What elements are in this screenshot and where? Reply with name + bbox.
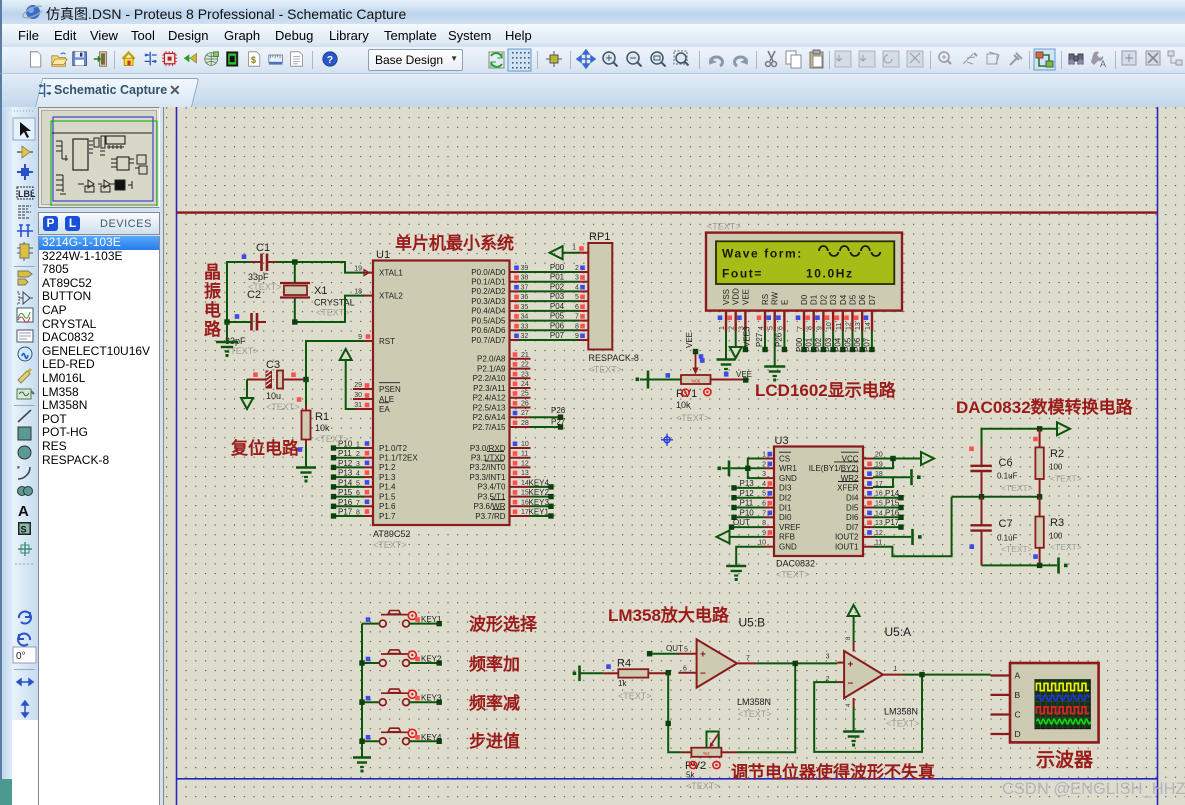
svg-text:LCD1602显示电路: LCD1602显示电路 bbox=[755, 380, 897, 400]
button KEY3 bbox=[362, 689, 442, 705]
svg-text:1: 1 bbox=[356, 442, 360, 449]
svg-text:DI6: DI6 bbox=[846, 513, 859, 522]
power terminal EA bbox=[340, 349, 352, 360]
wire net label P27 bbox=[530, 418, 566, 430]
svg-text:P02: P02 bbox=[814, 337, 823, 352]
svg-text:%2: %2 bbox=[703, 751, 710, 756]
svg-text:GND: GND bbox=[779, 543, 797, 552]
svg-text:D7: D7 bbox=[868, 294, 877, 305]
wire net P14 DI4 bbox=[873, 497, 899, 499]
capacitor C3 10u electrolytic bbox=[247, 359, 306, 412]
wire net P15 DI5 bbox=[873, 507, 899, 509]
svg-text:39: 39 bbox=[521, 265, 529, 272]
svg-text:U5:B: U5:B bbox=[739, 616, 766, 630]
capacitor C7 0.1uF bbox=[970, 497, 1033, 566]
svg-text:P03: P03 bbox=[550, 292, 565, 301]
resistor R3 100 bbox=[1033, 497, 1081, 566]
svg-text:振: 振 bbox=[204, 281, 221, 301]
svg-text:<TEXT>: <TEXT> bbox=[1050, 474, 1082, 484]
svg-text:P1.2: P1.2 bbox=[379, 463, 396, 472]
svg-text:11: 11 bbox=[875, 540, 882, 547]
wire xtal top rail to XTAL1 bbox=[276, 262, 364, 273]
svg-text:8: 8 bbox=[762, 520, 766, 527]
svg-text:+: + bbox=[848, 659, 854, 670]
svg-text:0°: 0° bbox=[16, 651, 26, 662]
junction mid C6 bbox=[979, 494, 984, 499]
ic U3 DAC0832 body bbox=[758, 435, 883, 580]
svg-text:AT89C52: AT89C52 bbox=[373, 529, 410, 539]
svg-text:EA: EA bbox=[379, 405, 390, 414]
svg-text:22: 22 bbox=[521, 362, 529, 369]
svg-text:R1: R1 bbox=[315, 411, 329, 423]
svg-text:P12: P12 bbox=[740, 489, 755, 498]
svg-text:6: 6 bbox=[575, 304, 579, 311]
svg-text:P3.7/RD: P3.7/RD bbox=[475, 512, 505, 521]
svg-text:10u: 10u bbox=[266, 391, 281, 401]
op-amp U5:B LM358N bbox=[678, 616, 771, 720]
svg-text:KEY4: KEY4 bbox=[421, 733, 442, 742]
svg-text:5: 5 bbox=[356, 480, 360, 487]
svg-text:2: 2 bbox=[575, 265, 579, 272]
svg-text:DI0: DI0 bbox=[779, 513, 792, 522]
svg-text:10k: 10k bbox=[676, 400, 691, 410]
wire crystal top stub bbox=[294, 262, 296, 283]
wire mid rail bbox=[952, 496, 1040, 498]
terminal LCD VDD down arrow bbox=[735, 331, 737, 347]
svg-text:D2: D2 bbox=[819, 294, 828, 305]
svg-text:34: 34 bbox=[521, 314, 529, 321]
svg-text:P01: P01 bbox=[805, 337, 814, 352]
svg-text:C7: C7 bbox=[999, 518, 1013, 530]
wire feedback down bbox=[668, 673, 681, 753]
wire net P12 DI2 bbox=[736, 497, 764, 499]
svg-text:P03: P03 bbox=[824, 337, 833, 352]
terminal ground CS-WR1 bbox=[728, 461, 731, 477]
svg-text:RP1: RP1 bbox=[589, 231, 610, 243]
junction crystal bottom bbox=[292, 319, 297, 324]
svg-text:D3: D3 bbox=[829, 294, 838, 305]
svg-text:P05: P05 bbox=[843, 337, 852, 352]
svg-text:KEY4: KEY4 bbox=[529, 478, 550, 487]
svg-text:P0.6/AD6: P0.6/AD6 bbox=[471, 326, 506, 335]
svg-text:P12: P12 bbox=[338, 459, 353, 468]
svg-text:KEY2: KEY2 bbox=[421, 655, 442, 664]
svg-text:KEY3: KEY3 bbox=[421, 694, 442, 703]
svg-text:10: 10 bbox=[758, 540, 766, 547]
svg-text:P16: P16 bbox=[338, 498, 353, 507]
svg-text:5: 5 bbox=[768, 326, 775, 330]
wire CS WR1 GND tie bbox=[748, 459, 764, 479]
svg-text:IOUT2: IOUT2 bbox=[835, 533, 859, 542]
svg-text:LM358放大电路: LM358放大电路 bbox=[608, 605, 730, 625]
svg-text:P1.7: P1.7 bbox=[379, 512, 396, 521]
svg-text:P1.0/T2: P1.0/T2 bbox=[379, 444, 408, 453]
svg-text:C1: C1 bbox=[256, 242, 270, 254]
svg-text:D5: D5 bbox=[849, 294, 858, 305]
svg-text:GND: GND bbox=[779, 474, 797, 483]
svg-text:27: 27 bbox=[521, 410, 529, 417]
svg-text:7: 7 bbox=[575, 314, 579, 321]
svg-text:P2.2/A10: P2.2/A10 bbox=[473, 374, 506, 383]
svg-text:P15: P15 bbox=[338, 488, 353, 497]
svg-text:PSEN: PSEN bbox=[379, 385, 401, 394]
svg-text:6: 6 bbox=[777, 326, 784, 330]
svg-text:复位电路: 复位电路 bbox=[230, 438, 300, 458]
svg-text:14: 14 bbox=[875, 510, 883, 517]
svg-text:26: 26 bbox=[521, 401, 529, 408]
svg-text:23: 23 bbox=[521, 371, 529, 378]
svg-text:B: B bbox=[1015, 690, 1021, 700]
svg-text:XTAL2: XTAL2 bbox=[379, 291, 403, 300]
wire U5:A feedback loop bbox=[814, 675, 922, 752]
svg-text:<TEXT>: <TEXT> bbox=[373, 540, 407, 550]
svg-text:DI1: DI1 bbox=[779, 503, 792, 512]
wire net P11 DI1 bbox=[736, 507, 764, 509]
capacitor C6 0.1uF bbox=[969, 446, 1032, 497]
ground U5:A V- bbox=[853, 707, 855, 731]
svg-text:<TEXT>: <TEXT> bbox=[1001, 544, 1033, 554]
svg-text:U1: U1 bbox=[376, 249, 390, 261]
svg-text:DI7: DI7 bbox=[846, 523, 859, 532]
svg-text:<TEXT>: <TEXT> bbox=[266, 402, 300, 412]
svg-text:P13: P13 bbox=[740, 479, 755, 488]
svg-text:U3: U3 bbox=[775, 435, 789, 447]
svg-text:1k: 1k bbox=[618, 679, 627, 688]
junction button bus bbox=[359, 660, 364, 665]
svg-text:路: 路 bbox=[204, 319, 222, 339]
svg-text:4: 4 bbox=[356, 471, 360, 478]
svg-text:P0.1/AD1: P0.1/AD1 bbox=[471, 278, 506, 287]
svg-text:A: A bbox=[18, 503, 29, 520]
svg-text:P00: P00 bbox=[550, 263, 565, 272]
svg-text:晶: 晶 bbox=[204, 263, 221, 282]
svg-text:P06: P06 bbox=[853, 337, 862, 352]
svg-text:5: 5 bbox=[575, 294, 579, 301]
svg-text:VEE3: VEE3 bbox=[743, 326, 752, 347]
svg-text:C3: C3 bbox=[266, 359, 280, 371]
svg-text:P1.1/T2EX: P1.1/T2EX bbox=[379, 454, 418, 463]
wire net label P26 bbox=[530, 406, 566, 420]
wire top rail +out bbox=[982, 429, 1040, 448]
svg-text:33: 33 bbox=[521, 323, 529, 330]
svg-text:9: 9 bbox=[816, 326, 823, 330]
svg-text:1: 1 bbox=[762, 452, 766, 459]
svg-text:<TEXT>: <TEXT> bbox=[315, 434, 349, 444]
svg-text:P0.0/AD0: P0.0/AD0 bbox=[471, 268, 506, 277]
ground DAC GND10 bbox=[736, 547, 764, 566]
svg-text:9: 9 bbox=[358, 334, 362, 341]
junction U5:A output bbox=[919, 672, 924, 677]
svg-text:X1: X1 bbox=[314, 285, 327, 297]
svg-text:P11: P11 bbox=[338, 449, 352, 458]
svg-text:P0.4/AD4: P0.4/AD4 bbox=[471, 307, 506, 316]
junction mid R2 bbox=[1037, 494, 1042, 499]
svg-text:波形选择: 波形选择 bbox=[469, 614, 538, 634]
svg-text:<TEXT>: <TEXT> bbox=[738, 709, 772, 719]
junction top rail R2 bbox=[1037, 426, 1042, 431]
svg-text:<TEXT>: <TEXT> bbox=[707, 222, 741, 232]
svg-text:RESPACK-8: RESPACK-8 bbox=[589, 353, 639, 363]
svg-text:14: 14 bbox=[865, 322, 872, 330]
junction feedback mid bbox=[666, 721, 671, 726]
svg-text:5: 5 bbox=[684, 647, 688, 654]
svg-text:S: S bbox=[21, 525, 27, 535]
svg-text:C6: C6 bbox=[999, 457, 1013, 469]
svg-text:CRYSTAL: CRYSTAL bbox=[314, 298, 355, 308]
svg-text:2: 2 bbox=[729, 326, 736, 330]
capacitor C2 33pF bbox=[225, 289, 266, 356]
junction C2-ground bbox=[224, 319, 229, 324]
svg-text:−: − bbox=[848, 678, 854, 689]
svg-text:P2.4/A12: P2.4/A12 bbox=[473, 394, 506, 403]
svg-text:<TEXT>: <TEXT> bbox=[1001, 483, 1033, 493]
terminal C3 down arrow bbox=[246, 380, 248, 399]
resistor R4 1k bbox=[603, 658, 667, 702]
svg-text:OUT: OUT bbox=[666, 644, 683, 653]
svg-text:C2: C2 bbox=[247, 289, 261, 301]
svg-text:7: 7 bbox=[746, 655, 750, 662]
svg-text:2: 2 bbox=[356, 451, 360, 458]
svg-text:8: 8 bbox=[807, 326, 814, 330]
svg-text:<TEXT>: <TEXT> bbox=[686, 781, 720, 791]
svg-text:P2.0/A8: P2.0/A8 bbox=[477, 355, 506, 364]
wire net P16 DI6 bbox=[873, 516, 899, 518]
svg-text:KEY1: KEY1 bbox=[529, 508, 550, 517]
svg-text:KEY2: KEY2 bbox=[529, 488, 550, 497]
junction C3-R1 bbox=[303, 377, 308, 382]
oscilloscope 示波器 bbox=[991, 663, 1099, 742]
U1 pins XTAL1 XTAL2 RST PSEN ALE EA bbox=[353, 265, 403, 413]
junction U5B output feedback bbox=[793, 661, 798, 666]
svg-text:12: 12 bbox=[875, 530, 883, 537]
svg-text:DAC0832: DAC0832 bbox=[776, 559, 815, 569]
svg-text:VSS: VSS bbox=[722, 289, 731, 305]
svg-text:CS: CS bbox=[779, 454, 790, 463]
U1 P2 pins 21-28 bbox=[473, 352, 531, 432]
svg-text:P3.2/INT0: P3.2/INT0 bbox=[469, 463, 506, 472]
wire RST net bbox=[306, 341, 364, 380]
svg-text:19: 19 bbox=[354, 265, 362, 272]
wire VCC ILE tie + terminal arrow bbox=[873, 458, 893, 460]
wire EA bbox=[346, 368, 355, 409]
terminal ground bottom rail bbox=[1057, 557, 1060, 573]
svg-text:P2.1/A9: P2.1/A9 bbox=[477, 364, 506, 373]
wire IOUT1 to filter bbox=[873, 497, 952, 557]
svg-text:IOUT1: IOUT1 bbox=[835, 543, 859, 552]
svg-text:P14: P14 bbox=[885, 489, 900, 498]
svg-text:<TEXT>: <TEXT> bbox=[886, 719, 920, 729]
wire button bus bbox=[361, 624, 363, 757]
svg-text:P04: P04 bbox=[834, 337, 843, 352]
svg-text:P15: P15 bbox=[885, 499, 900, 508]
junction bottom rail bbox=[1037, 563, 1042, 568]
wire C1 left to ground rail bbox=[227, 262, 252, 322]
svg-text:P01: P01 bbox=[550, 273, 565, 282]
svg-text:P0.2/AD2: P0.2/AD2 bbox=[471, 287, 506, 296]
svg-text:RS: RS bbox=[761, 294, 770, 305]
svg-text:OUT: OUT bbox=[733, 518, 750, 527]
svg-text:12: 12 bbox=[846, 322, 853, 330]
svg-text:18: 18 bbox=[354, 288, 362, 295]
svg-text:10: 10 bbox=[521, 441, 529, 448]
svg-text:7: 7 bbox=[356, 500, 360, 507]
svg-text:+: + bbox=[700, 650, 706, 661]
svg-text:P07: P07 bbox=[863, 337, 872, 352]
svg-text:P0.3/AD3: P0.3/AD3 bbox=[471, 297, 506, 306]
svg-text:WR1: WR1 bbox=[779, 464, 797, 473]
svg-text:A: A bbox=[1015, 671, 1021, 681]
svg-text:1: 1 bbox=[719, 326, 726, 330]
pot RV1 10k bbox=[649, 352, 745, 423]
terminal RFB arrow bbox=[729, 536, 765, 538]
svg-text:10.0Hz: 10.0Hz bbox=[806, 267, 854, 281]
svg-text:9: 9 bbox=[575, 333, 579, 340]
svg-text:KEY1: KEY1 bbox=[421, 615, 442, 624]
wire net OUT to plus input bbox=[652, 653, 679, 655]
svg-text:调节电位器使得波形不失真: 调节电位器使得波形不失真 bbox=[731, 762, 935, 782]
svg-text:VEE: VEE bbox=[685, 332, 694, 348]
svg-text:36: 36 bbox=[521, 294, 529, 301]
svg-text:P14: P14 bbox=[338, 478, 353, 487]
terminal R4 input left bbox=[578, 666, 581, 682]
button KEY4 bbox=[362, 728, 442, 744]
svg-text:单片机最小系统: 单片机最小系统 bbox=[395, 233, 514, 253]
svg-text:P10: P10 bbox=[740, 508, 755, 517]
junction crystal top bbox=[292, 259, 297, 264]
svg-text:CSDN @ENGLISH_HHZ: CSDN @ENGLISH_HHZ bbox=[1002, 780, 1185, 798]
svg-text:D4: D4 bbox=[839, 294, 848, 305]
svg-text:4: 4 bbox=[762, 481, 766, 488]
svg-text:2: 2 bbox=[762, 461, 766, 468]
svg-text:25: 25 bbox=[521, 391, 529, 398]
terminal arrow top rail bbox=[1057, 422, 1070, 435]
wire U5B output to U5A bbox=[756, 662, 837, 664]
svg-text:21: 21 bbox=[521, 352, 529, 359]
wire net P10 DI0 bbox=[736, 516, 764, 518]
svg-text:P3.4/T0: P3.4/T0 bbox=[477, 483, 506, 492]
net VEE wiper bbox=[693, 349, 698, 354]
svg-text:D: D bbox=[1015, 729, 1021, 739]
svg-text:Wave form:: Wave form: bbox=[722, 247, 803, 261]
svg-text:示波器: 示波器 bbox=[1036, 748, 1094, 771]
svg-text:RW: RW bbox=[771, 291, 780, 305]
svg-text:13: 13 bbox=[521, 470, 529, 477]
svg-text:P26: P26 bbox=[775, 332, 784, 347]
lcd display LCD1 LM016L bbox=[706, 222, 902, 332]
crystal X1 bbox=[280, 283, 355, 318]
resistor R2 100 bbox=[1033, 429, 1081, 497]
svg-text:P1.4: P1.4 bbox=[379, 483, 396, 492]
svg-text:0.1uF: 0.1uF bbox=[997, 534, 1018, 543]
svg-text:5: 5 bbox=[762, 491, 766, 498]
svg-text:0.1uF: 0.1uF bbox=[997, 472, 1018, 481]
svg-text:D0: D0 bbox=[800, 294, 809, 305]
svg-text:11: 11 bbox=[836, 323, 843, 330]
wire net P27 lcd bbox=[764, 331, 766, 347]
pot RV2 5k bbox=[681, 732, 737, 792]
power terminal U5:A V+ bbox=[848, 605, 860, 616]
svg-text:P1.3: P1.3 bbox=[379, 473, 396, 482]
svg-text:LM358N: LM358N bbox=[884, 707, 918, 717]
svg-text:7: 7 bbox=[797, 326, 804, 330]
svg-text:P00: P00 bbox=[795, 337, 804, 352]
svg-text:DAC0832数模转换电路: DAC0832数模转换电路 bbox=[956, 397, 1134, 417]
wire net P17 DI7 bbox=[873, 526, 899, 528]
svg-text:XTAL1: XTAL1 bbox=[379, 268, 403, 277]
svg-text:R2: R2 bbox=[1050, 448, 1064, 460]
capacitor C1 33pF bbox=[242, 242, 282, 292]
op-amp U5:A LM358N bbox=[826, 625, 920, 729]
svg-text:13: 13 bbox=[855, 322, 862, 330]
svg-text:P07: P07 bbox=[550, 331, 565, 340]
svg-text:%06: %06 bbox=[691, 378, 701, 383]
marker crosshair bbox=[661, 434, 673, 446]
svg-text:DI4: DI4 bbox=[846, 494, 859, 503]
U1 P3 pins with KEY net labels bbox=[469, 441, 553, 521]
svg-text:VEE: VEE bbox=[736, 370, 752, 379]
net VEE right bbox=[743, 377, 748, 382]
U1 P0 pins wires to RP1 with net labels P00-P07 bbox=[471, 263, 588, 345]
svg-text:P0.7/AD7: P0.7/AD7 bbox=[471, 336, 506, 345]
svg-text:P11: P11 bbox=[740, 499, 754, 508]
svg-text:4: 4 bbox=[575, 284, 579, 291]
svg-text:<TEXT>: <TEXT> bbox=[589, 365, 623, 375]
svg-text:24: 24 bbox=[521, 381, 529, 388]
junction VCC bbox=[890, 456, 895, 461]
svg-text:P13: P13 bbox=[338, 469, 353, 478]
wire WR2 XFER tie + ground bar bbox=[873, 476, 893, 478]
svg-text:RST: RST bbox=[379, 337, 395, 346]
wire net P13 DI3 bbox=[736, 487, 764, 489]
ground R1 bbox=[305, 445, 307, 467]
svg-text:C: C bbox=[1015, 710, 1021, 720]
svg-text:20: 20 bbox=[875, 452, 883, 459]
svg-text:3: 3 bbox=[826, 654, 830, 661]
ic U1 AT89C52 body bbox=[373, 261, 510, 526]
svg-text:30: 30 bbox=[354, 392, 362, 399]
svg-text:3: 3 bbox=[762, 471, 766, 478]
ground button bus bbox=[353, 756, 371, 759]
wire U5:A output to scope bbox=[903, 674, 991, 676]
svg-text:LM358N: LM358N bbox=[737, 697, 771, 707]
svg-text:6: 6 bbox=[356, 490, 360, 497]
svg-text:35: 35 bbox=[521, 304, 529, 311]
svg-text:P27: P27 bbox=[551, 418, 566, 427]
terminal RV1 left bbox=[647, 371, 650, 389]
svg-text:28: 28 bbox=[521, 420, 529, 427]
svg-text:12: 12 bbox=[521, 460, 529, 467]
svg-text:8: 8 bbox=[575, 323, 579, 330]
wire net P26 lcd bbox=[783, 331, 785, 347]
svg-text:<TEXT>: <TEXT> bbox=[618, 691, 652, 701]
svg-text:1: 1 bbox=[894, 666, 898, 673]
svg-text:37: 37 bbox=[521, 284, 529, 291]
button KEY2 bbox=[362, 650, 442, 666]
svg-text:LBL: LBL bbox=[18, 189, 36, 199]
svg-text:8: 8 bbox=[356, 510, 360, 517]
svg-text:VREF: VREF bbox=[779, 523, 800, 532]
wire bottom rail bbox=[982, 564, 1040, 566]
svg-text:P02: P02 bbox=[550, 282, 565, 291]
svg-text:32: 32 bbox=[521, 333, 529, 340]
svg-text:P0.5/AD5: P0.5/AD5 bbox=[471, 316, 506, 325]
svg-text:1: 1 bbox=[572, 245, 576, 252]
svg-text:16: 16 bbox=[875, 491, 883, 498]
svg-text:U5:A: U5:A bbox=[885, 625, 912, 639]
U1 P1 pins with net labels P10-P17 bbox=[331, 440, 419, 521]
wire net VEE3 bbox=[744, 331, 746, 347]
svg-text:P2.5/A13: P2.5/A13 bbox=[473, 403, 506, 412]
